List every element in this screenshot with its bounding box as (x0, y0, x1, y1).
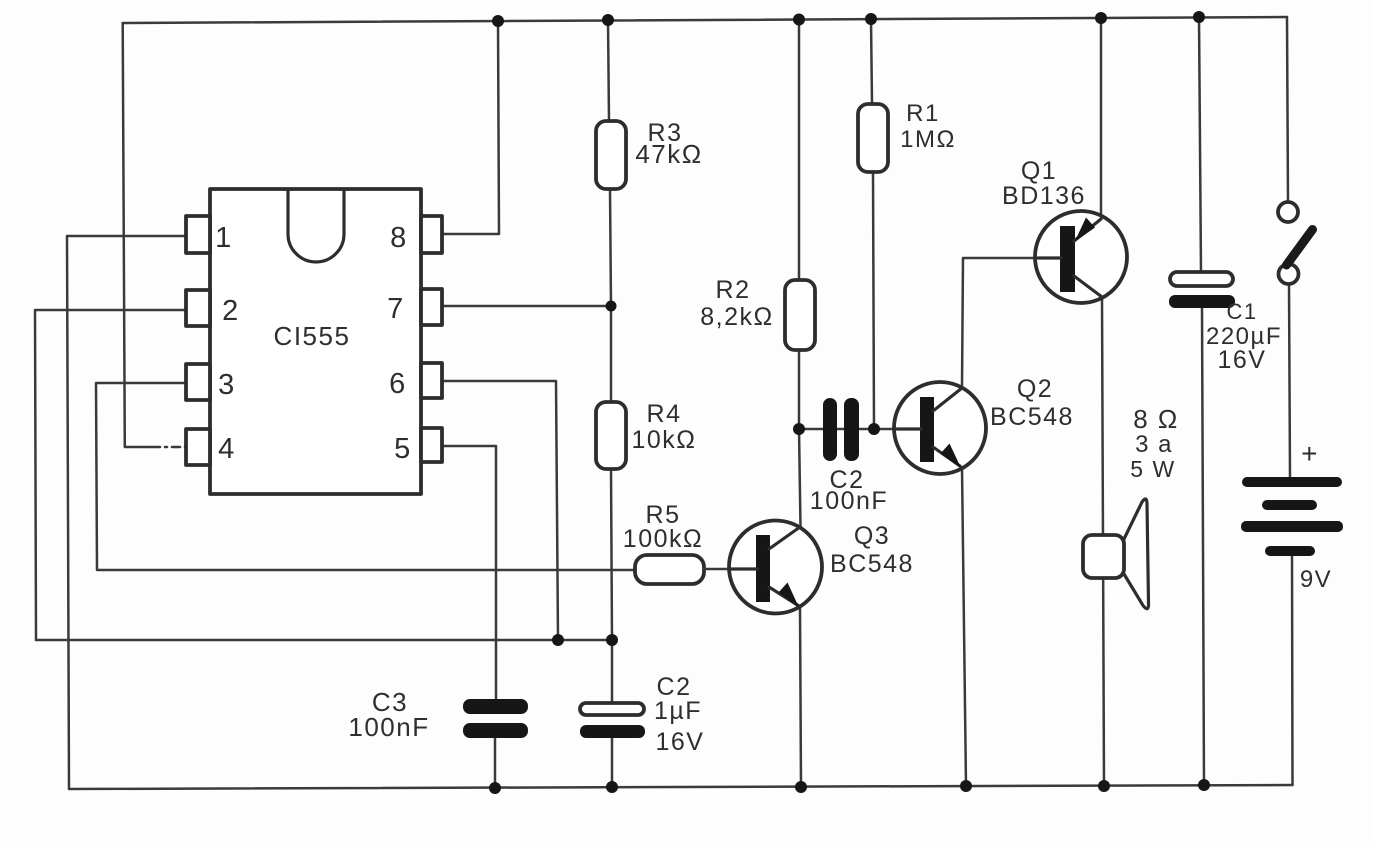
switch S1 (1278, 202, 1313, 284)
wire switch/battery column (1287, 17, 1293, 785)
resistor R2 (785, 280, 815, 350)
svg-text:8 Ω: 8 Ω (1133, 404, 1179, 434)
pin 4 box (186, 429, 210, 465)
svg-text:Q1: Q1 (1021, 157, 1057, 185)
svg-text:1: 1 (215, 222, 233, 254)
transistor Q2 BC548 (894, 382, 986, 474)
wire pin 8 to V+ (441, 21, 499, 234)
resistor R4 (596, 402, 626, 469)
svg-text:BC548: BC548 (990, 403, 1074, 431)
svg-text:+: + (1301, 438, 1319, 469)
wire R2 column (799, 20, 801, 528)
node dot ground C3 (489, 782, 501, 794)
pin 6 box (421, 363, 442, 398)
svg-text:R1: R1 (906, 100, 940, 127)
wire pin 6 drop to y640 (442, 381, 558, 640)
pin 5 box (421, 428, 442, 462)
wire top V+ rail (123, 17, 1287, 23)
pin 2 box (186, 290, 210, 326)
svg-text:BD136: BD136 (1002, 182, 1086, 210)
node dot top rail R3 (602, 14, 614, 26)
wire Q1 collector to speaker and ground (1102, 297, 1104, 786)
wire pin 1 to bottom-left ground (67, 236, 186, 789)
svg-text:47kΩ: 47kΩ (635, 139, 702, 169)
node dot ground speaker (1098, 780, 1110, 792)
svg-text:16V: 16V (656, 728, 705, 756)
op-amp U1 CI555 body (210, 189, 421, 494)
wire Q2 collector to Q1 base (962, 258, 1060, 387)
node dot ground C1 (1198, 779, 1210, 791)
svg-text:BC548: BC548 (830, 550, 914, 578)
svg-text:2: 2 (222, 295, 240, 327)
svg-text:1µF: 1µF (654, 697, 702, 725)
wire bottom ground rail (69, 785, 1293, 789)
wire trigger/threshold line y640 (36, 639, 612, 642)
wire C2 1uF bottom to ground (611, 738, 614, 787)
resistor R5 (635, 555, 704, 584)
capacitor C1 220uF electrolytic (1169, 272, 1235, 308)
svg-text:3 a: 3 a (1135, 431, 1173, 458)
resistor R1 (858, 104, 888, 172)
svg-text:C1: C1 (1226, 299, 1257, 324)
wire Q2 emitter to ground (962, 468, 966, 786)
svg-text:100kΩ: 100kΩ (623, 525, 703, 553)
node dot pin6 y640 (552, 634, 564, 646)
node dot ground Q2 (960, 780, 972, 792)
node dot top rail R2 (793, 14, 805, 26)
node dot R2/C2/Q3 (793, 423, 805, 435)
wire C1 column (1199, 17, 1204, 785)
pin 8 box (421, 216, 442, 253)
svg-text:Q3: Q3 (854, 522, 890, 550)
capacitor C3 100nF (463, 699, 528, 738)
node dot top rail C1 (1193, 11, 1205, 23)
wire Q1 emitter to V+ (1100, 18, 1103, 219)
pin 7 box (421, 289, 442, 325)
svg-text:100nF: 100nF (810, 487, 888, 515)
wire pin 2 left drop (35, 310, 186, 640)
svg-text:16V: 16V (1218, 346, 1267, 374)
wire R5 to Q3 base (704, 568, 756, 571)
wire Q3 emitter to ground (800, 607, 801, 787)
node dot ground C2 1uF (606, 781, 618, 793)
node dot pin7 junction (606, 301, 617, 312)
capacitor C2 1uF electrolytic (580, 703, 645, 738)
pin 1 box (186, 216, 210, 253)
svg-text:9V: 9V (1300, 566, 1332, 593)
wire pin 7 to R3/R4 junction (442, 305, 611, 308)
svg-text:R4: R4 (647, 400, 682, 428)
svg-text:Q2: Q2 (1017, 375, 1053, 403)
transistor Q1 BD136 (1035, 211, 1127, 303)
wire R3 column (608, 20, 612, 703)
svg-text:CI555: CI555 (274, 321, 351, 351)
svg-text:7: 7 (387, 293, 405, 325)
svg-text:5: 5 (394, 433, 412, 465)
pin 3 box (186, 364, 210, 400)
svg-text:5 W: 5 W (1130, 456, 1175, 482)
wire pin4 dashed tail (152, 446, 186, 449)
svg-text:3: 3 (218, 369, 236, 401)
wire C3 bottom to ground (494, 738, 497, 788)
node dot top rail Q1 emitter (1095, 12, 1107, 24)
node dot C2/R1/Q2 (868, 423, 880, 435)
wire pin 3 to R5 (96, 383, 635, 570)
node dot ground Q3 (795, 781, 807, 793)
wire C2 100nF node to Q2 base (799, 428, 920, 431)
svg-text:6: 6 (389, 368, 407, 400)
wire R1 column (871, 19, 874, 429)
resistor R3 (596, 121, 626, 189)
wire pin 5 drop to C3 (442, 446, 496, 699)
svg-text:8: 8 (390, 222, 408, 254)
svg-text:100nF: 100nF (348, 712, 429, 742)
battery B1 9V (1241, 477, 1343, 556)
speaker LS1 (1083, 499, 1149, 609)
node dot top rail R1 (865, 13, 877, 25)
svg-text:1MΩ: 1MΩ (900, 126, 956, 153)
transistor Q3 BC548 (729, 521, 822, 614)
svg-text:R2: R2 (716, 276, 751, 304)
svg-text:8,2kΩ: 8,2kΩ (700, 303, 773, 331)
wire left vertical to pin 4 (123, 23, 152, 447)
svg-text:4: 4 (218, 433, 236, 465)
svg-text:10kΩ: 10kΩ (632, 426, 697, 454)
node dot top rail pin8 (492, 15, 504, 27)
capacitor C2 100nF (coupling) (823, 398, 859, 461)
node dot R4 y640 (606, 634, 618, 646)
